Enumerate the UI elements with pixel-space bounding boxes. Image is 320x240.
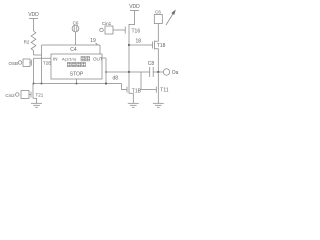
transistor T18 channel [154,41,156,50]
wire top rail [42,44,101,46]
wire OSB box to T2B gate [30,62,31,64]
junction dot T2B source [41,83,43,85]
reference arrow 1 head [171,10,176,16]
wire VDD1 to R2 [33,19,35,32]
block title line2 cjk glyph 3 [77,62,81,66]
svg-text:OSB: OSB [8,61,18,66]
svg-text:Oa: Oa [172,70,179,76]
junction dot OUT-stop [105,82,107,84]
transistor T18 gate bar [152,42,154,49]
wire Cin2 box to T2A gate [29,94,31,96]
junction dot n18 [128,44,130,46]
capacitor C8 left plate [149,67,151,77]
wire crystal to rail [75,32,77,45]
svg-text:T21: T21 [36,93,44,98]
wire T11 gate tap [141,72,156,90]
transistor T1B gate bar [126,87,128,93]
svg-text:VDD: VDD [28,12,39,18]
wire Cin1 box to T16 gate [113,29,125,31]
wire rail drop long vertical [41,45,43,84]
wire R2 to node vertical [34,54,42,56]
block title line1 cjk glyph 1 [81,57,85,61]
transistor T2A gate bar [30,92,32,98]
svg-text:C6: C6 [155,10,161,15]
wire stop net bottom [33,83,122,85]
transistor T2B gate bar [30,60,32,66]
power VDD2 bar [130,10,139,12]
transistor T11 drain jog [157,72,159,86]
svg-text:d8: d8 [113,76,119,82]
wire node A horizontal to block IN [34,57,52,59]
wire OUT vertical [105,58,107,84]
transistor T16 channel [128,24,130,36]
svg-text:STOP: STOP [70,72,84,78]
wire out net y72 [106,71,150,73]
resistor R2 zigzag [31,31,36,51]
junction dot T16 source on y72 [128,71,130,73]
transistor T18 drain jog [155,24,159,42]
ground T1B bars [128,103,139,107]
wire T1B gate drop [122,84,128,90]
wire T18 gate lead [129,44,153,46]
reference arrow 1 [166,13,174,26]
input Cin2 terminal circle [15,93,19,97]
ground T2A bars [31,103,42,107]
crystal C6b box top-right [154,15,162,24]
transistor T18 source jog [155,49,159,72]
svg-text:C6: C6 [73,20,79,25]
transistor T2B channel and source [33,58,35,83]
svg-text:Cin1: Cin1 [102,21,112,26]
wire T2A drain vertical [32,84,34,91]
block title line2 cjk glyph 4 [82,62,86,66]
transistor T2A channel [32,91,34,99]
power VDD1 bar [29,18,38,20]
wire rail to block top [99,45,101,54]
svg-text:VDD: VDD [129,4,140,10]
junction dot Oa node [157,71,159,73]
svg-text:IN: IN [53,56,58,61]
wire T1B drain vertical [128,72,130,86]
svg-text:T2B: T2B [43,61,51,66]
node 19 leader tick [96,43,98,45]
wire R2 bottom [33,51,35,56]
capacitor C8 right plate [152,67,154,77]
junction dot stop-left [33,83,35,85]
block title line2 cjk glyph 2 [72,62,76,66]
svg-text:19: 19 [90,38,96,44]
ground T11 bars [153,103,164,107]
crystal C6 inner marks [73,26,75,31]
wire T16 source vertical [128,36,130,73]
svg-text:C8: C8 [148,61,155,67]
wire OUT pin lead [102,57,106,59]
svg-text:A(1/1m): A(1/1m) [62,57,77,62]
input Cin1 terminal circle [100,28,104,32]
svg-text:R2: R2 [24,40,30,45]
svg-text:OUT: OUT [93,56,103,61]
transistor T11 gate bar [155,87,157,93]
svg-text:C4: C4 [70,47,77,53]
junction dot OUT-y72 [105,71,107,73]
transistor T16 gate bar [124,27,126,34]
transistor T11 channel [157,86,159,94]
wire C8 to Oa terminal [153,71,163,73]
crystal C6 circle [72,25,79,32]
block title line2 cjk glyph 1 [67,62,71,66]
junction dot STOP stub [76,83,78,85]
wire STOP pin stub [76,79,78,84]
svg-text:T18: T18 [157,43,166,49]
terminal Oa circle [163,69,169,75]
input Cin2 series box [21,91,29,99]
transistor T1B channel [128,86,130,94]
svg-text:T11: T11 [160,88,168,94]
svg-text:18: 18 [136,38,142,44]
wire VDD2 to T16 drain [129,11,135,25]
svg-text:Cin2: Cin2 [5,93,15,98]
transistor T2A source jog [33,98,37,103]
transistor T1B source jog [129,93,133,103]
block title line1 cjk glyph 2 [86,57,90,61]
svg-text:T16: T16 [132,28,141,34]
input OSB series box [23,59,30,67]
input Cin1 series box [105,26,113,34]
block U1 waveform shaping circuit [51,54,102,79]
input OSB terminal circle [18,61,22,65]
transistor T11 source jog [157,94,159,104]
